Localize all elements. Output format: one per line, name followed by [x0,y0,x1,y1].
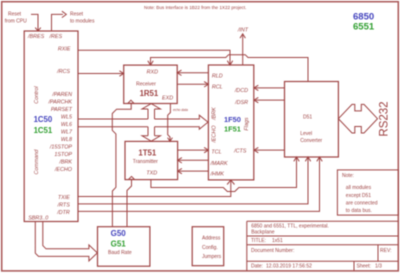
svg-text:1T51: 1T51 [138,148,156,157]
svg-text:to modules: to modules [70,19,95,25]
svg-text:RLD: RLD [212,73,223,79]
svg-text:G50: G50 [111,229,127,238]
svg-text:Document Number:: Document Number: [251,248,294,254]
RS232 double arrow [338,104,377,133]
svg-text:PARSET: PARSET [51,107,73,113]
transmitter clock triangle [129,176,135,179]
svg-text:/RTS: /RTS [57,203,71,209]
block bus interface 1B22 [24,31,78,222]
echo data wire [168,104,171,141]
receiver clock triangle [128,100,134,103]
svg-text:Jumpers: Jumpers [202,254,222,260]
svg-text:from CPU: from CPU [5,19,27,25]
block receiver 1R51 [124,65,178,103]
wire TXIE to flags [78,181,231,197]
wire RXD from D51 [151,55,309,82]
block baud rate G50/G51 [98,227,150,267]
svg-text:RXIE: RXIE [58,46,71,52]
svg-text:1F51: 1F51 [224,125,241,134]
svg-text:/INT: /INT [237,28,249,34]
svg-text:Control: Control [34,86,40,104]
svg-text:WL5: WL5 [61,115,73,121]
svg-text:Receiver: Receiver [136,82,156,88]
svg-text:/BRES: /BRES [27,34,45,40]
wire /HMK [178,170,208,172]
svg-text:WL7: WL7 [61,130,73,136]
svg-text:WL6: WL6 [61,122,72,128]
svg-text:Backplane: Backplane [251,230,275,236]
svg-text:EXD: EXD [162,96,173,102]
svg-text:/ECHO: /ECHO [212,125,218,144]
wire /CTS [254,149,284,151]
svg-text:are connected: are connected [346,201,378,207]
svg-text:TXD: TXD [146,171,157,177]
wire transmitter clock to baud gen [127,180,132,227]
svg-text:1x51: 1x51 [272,238,283,244]
svg-text:/CTS: /CTS [233,149,247,155]
data bus cross (hollow) [142,104,160,109]
svg-text:/BRK: /BRK [58,160,72,166]
svg-text:/RES: /RES [49,34,63,40]
svg-text:echo data: echo data [173,108,188,112]
block address config jumpers [192,227,224,266]
svg-text:1/3: 1/3 [375,264,382,270]
svg-text:Note: Bus Interface is 1B22 fr: Note: Bus Interface is 1B22 from the 1X2… [144,5,246,10]
svg-text:TXIE: TXIE [58,195,70,201]
bus SBR3..0 (hollow) [35,222,97,261]
svg-text:to data bus.: to data bus. [346,208,372,214]
svg-text:/RCS: /RCS [56,69,70,75]
svg-text:Command: Command [34,149,40,175]
svg-text:/DTR: /DTR [56,210,70,216]
svg-text:/PAREN: /PAREN [51,92,72,98]
svg-text:RCL: RCL [212,84,223,90]
wire RCL [177,83,208,85]
wire /DTR [78,158,319,212]
wire /DCD [254,87,284,89]
block D51 level converter [285,82,339,158]
wire /MARK [178,159,208,161]
svg-text:Reset: Reset [70,12,84,18]
svg-text:Date:: Date: [251,264,263,270]
svg-text:Note:: Note: [342,173,354,179]
block flags 1F50/1F51 [208,65,253,180]
svg-text:except D51: except D51 [346,193,372,199]
svg-text:/ECHO: /ECHO [54,167,73,173]
svg-text:12.03.2019 17:56:52: 12.03.2019 17:56:52 [266,264,312,270]
wire reset-in [31,14,38,30]
svg-text:/PARCHK: /PARCHK [47,100,72,106]
svg-text:SBR3..0: SBR3..0 [28,216,48,222]
wire /DSR [254,99,284,101]
svg-text:TITLE:: TITLE: [251,238,266,244]
svg-text:Level: Level [300,131,312,137]
svg-text:/HMK: /HMK [210,171,225,177]
svg-text:Reset: Reset [8,12,22,18]
svg-text:1C50: 1C50 [34,115,53,124]
svg-text:1C51: 1C51 [34,126,53,135]
svg-text:Address: Address [202,236,221,242]
block transmitter 1T51 [125,141,178,179]
svg-text:all modules: all modules [346,185,372,191]
svg-text:/15STOP: /15STOP [49,145,72,151]
svg-text:1F50: 1F50 [224,115,241,124]
svg-text:Sheet:: Sheet: [357,264,371,270]
svg-text:/BRK: /BRK [212,107,218,121]
svg-text:1R51: 1R51 [140,89,159,98]
svg-text:/DSR: /DSR [234,100,248,106]
svg-text:G51: G51 [111,239,127,248]
wire /RTS [78,158,308,204]
wire TXD [151,158,297,192]
svg-text:Config.: Config. [202,245,218,251]
wire /RCS [78,73,123,75]
svg-text:REV:: REV: [380,248,391,254]
svg-text:WL8: WL8 [61,137,72,143]
svg-text:Flags: Flags [244,117,250,130]
svg-text:Converter: Converter [300,138,322,144]
title block [247,221,398,271]
svg-text:6551: 6551 [353,22,375,33]
svg-text:RS232: RS232 [379,101,391,136]
svg-text:1STOP: 1STOP [54,152,72,158]
svg-text:TCL: TCL [211,149,221,155]
wire reset-out [52,14,64,31]
svg-text:D51: D51 [303,115,312,121]
wire /INT [242,34,244,65]
wire RLD [178,72,209,74]
wire TCL [178,149,208,151]
wire receiver clock to baud gen [112,103,131,226]
wire RXIE [78,50,230,64]
svg-text:Baud Rate: Baud Rate [108,250,132,256]
svg-text:/DCD: /DCD [234,88,248,94]
svg-text:RXD: RXD [147,69,158,75]
notes box [337,170,398,215]
svg-text:/MARK: /MARK [210,161,228,167]
svg-text:Transmitter: Transmitter [133,159,158,165]
